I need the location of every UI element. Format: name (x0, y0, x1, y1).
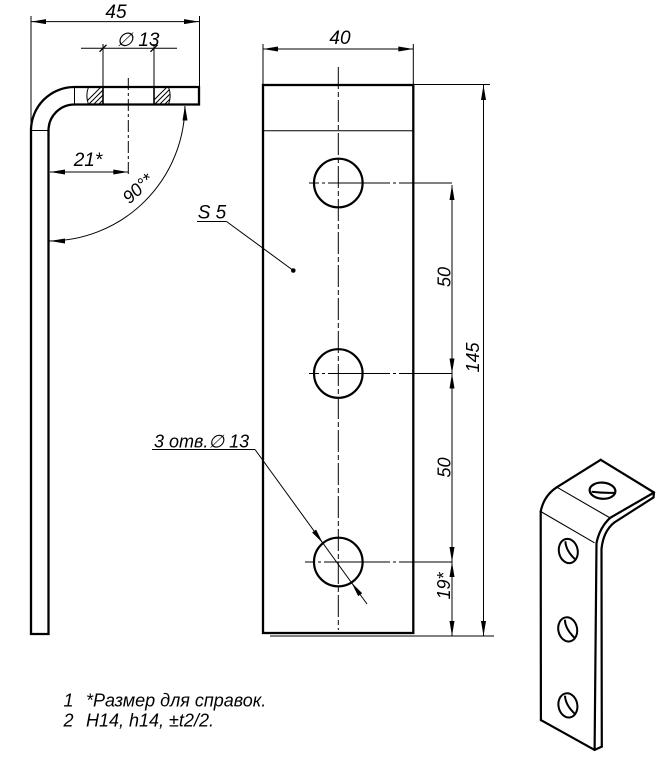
hatching right block (146, 84, 190, 108)
dimension D13 (81, 30, 177, 87)
extension top (413, 84, 490, 86)
iso back right edge (600, 549, 602, 747)
iso NE edge (601, 460, 654, 493)
notes (63, 691, 267, 731)
svg-text:19*: 19* (434, 571, 454, 599)
svg-text:40: 40 (329, 28, 351, 49)
iso front hole 3 (556, 692, 579, 720)
svg-text:*Размер для справок.: *Размер для справок. (86, 691, 266, 711)
dimension 45 (31, 2, 200, 130)
right dimensions (270, 85, 494, 637)
hole 2 centerline (309, 373, 452, 375)
svg-text:3 отв.∅ 13: 3 отв.∅ 13 (154, 432, 249, 452)
iso front hole 2 (556, 616, 579, 644)
iso top bend tangent line (557, 487, 610, 518)
label S 5 (197, 203, 296, 273)
iso bottom thickness edge (595, 747, 602, 750)
front view plate outline (263, 85, 413, 633)
hole right edge in section (153, 87, 155, 105)
local section boundary right (169, 87, 171, 105)
svg-text:50: 50 (435, 267, 455, 287)
bend tangent line on leg (31, 130, 49, 132)
hole 3 (314, 538, 363, 587)
iso front right edge (595, 543, 597, 750)
bend tangent line in arm (74, 87, 76, 105)
dim line 50 upper (451, 185, 453, 374)
dim line 145 (483, 85, 485, 636)
leader 3 holes D13 (152, 432, 367, 605)
hatching left block (80, 84, 124, 108)
iso NW edge (557, 460, 601, 487)
hole 1 centerline (309, 182, 452, 184)
iso SE edge (610, 493, 654, 518)
iso E corner edge (652, 493, 655, 498)
dimension 90deg arc (49, 106, 188, 244)
iso left bend arc (541, 487, 557, 511)
svg-text:∅ 13: ∅ 13 (117, 30, 160, 51)
dim line 50 lower (451, 374, 453, 563)
dim line 19* (451, 562, 453, 636)
iso back bend curve (602, 497, 654, 549)
iso front hole 1 (557, 537, 580, 565)
iso front bend tangent line (541, 512, 595, 543)
svg-text:S 5: S 5 (198, 203, 227, 224)
bracket side-view outline (31, 87, 199, 634)
dimension 40 (263, 28, 413, 85)
svg-text:45: 45 (105, 2, 127, 23)
svg-text:1: 1 (64, 691, 74, 711)
local section boundary left (87, 87, 89, 105)
hole 2 (314, 349, 363, 398)
hole left edge in section (102, 87, 104, 105)
svg-text:Н14, h14, ±t2/2.: Н14, h14, ±t2/2. (86, 711, 214, 731)
dimension 21* (50, 150, 128, 175)
hole centerline side view (127, 78, 129, 177)
bend line front view (263, 130, 413, 132)
hole 3 centerline (305, 561, 452, 563)
iso bottom edge (541, 720, 595, 750)
iso left edge (540, 512, 542, 721)
svg-text:21*: 21* (73, 150, 103, 171)
svg-text:145: 145 (463, 342, 483, 373)
extension bottom (270, 635, 494, 637)
iso top hole (589, 482, 616, 500)
hole 1 (314, 159, 363, 208)
vertical centerline front view (337, 67, 339, 630)
svg-text:50: 50 (435, 457, 455, 477)
iso front bend curve (597, 518, 611, 543)
svg-text:2: 2 (63, 711, 74, 731)
